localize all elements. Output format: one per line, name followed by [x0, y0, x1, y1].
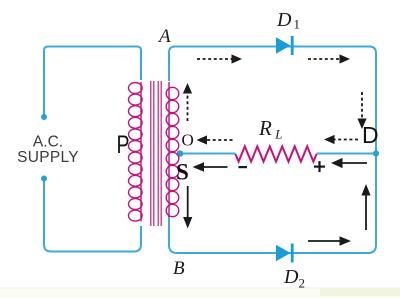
transformer core laminations [151, 81, 161, 226]
terminal dot AC top [41, 114, 47, 120]
wire: secondary bottom B to bottom-right corner via D2 [169, 154, 376, 254]
dashed arrow up (secondary top) [183, 83, 192, 121]
wire: secondary top A to top-right corner via D1 [169, 47, 376, 154]
node dot O (center tap) [177, 150, 184, 157]
svg-text:D: D [362, 122, 379, 148]
dashed arrow left (toward O) [197, 135, 233, 144]
svg-text:R: R [258, 116, 272, 140]
solid arrow right (bottom wire, right of D2) [308, 236, 351, 246]
solid arrow down (secondary bottom) [183, 186, 192, 229]
svg-text:L: L [274, 127, 282, 142]
diode D2 [276, 244, 294, 263]
svg-text:S: S [176, 160, 189, 185]
diode D1 [276, 36, 294, 55]
svg-text:A.C.: A.C. [33, 134, 63, 151]
terminal dot AC bottom [41, 176, 47, 182]
label plus (right of RL) [314, 161, 325, 172]
svg-text:2: 2 [299, 276, 306, 291]
dashed arrow down (right vertical, above D) [357, 92, 366, 129]
svg-text:1: 1 [294, 17, 301, 32]
svg-text:A: A [157, 26, 171, 47]
transformer secondary winding S [166, 82, 179, 217]
solid arrow up (right vertical, below D) [361, 184, 370, 230]
wire: AC supply top loop to primary top [44, 47, 141, 118]
svg-text:D: D [276, 9, 292, 31]
label minus (left of RL) [239, 166, 248, 168]
dashed arrow right (top wire, right of D1) [308, 54, 350, 63]
transformer primary winding P [129, 82, 143, 222]
wire: center tap O to load [180, 153, 236, 155]
dashed arrow left (toward D) [324, 135, 358, 144]
svg-text:P: P [117, 131, 130, 159]
dashed arrow right (top wire, left of D1) [197, 54, 242, 63]
solid arrow left (below center wire, left of RL) [193, 162, 228, 172]
wire: load to node D [317, 153, 377, 155]
wire: AC supply bottom loop to primary bottom [44, 179, 141, 252]
svg-text:SUPPLY: SUPPLY [17, 149, 79, 166]
svg-text:B: B [173, 258, 185, 279]
node dot D [373, 150, 379, 156]
svg-text:D: D [283, 266, 299, 288]
svg-text:O: O [182, 131, 194, 150]
resistor RL zigzag [236, 146, 317, 161]
solid arrow left (below wire, right of RL) [331, 158, 367, 168]
